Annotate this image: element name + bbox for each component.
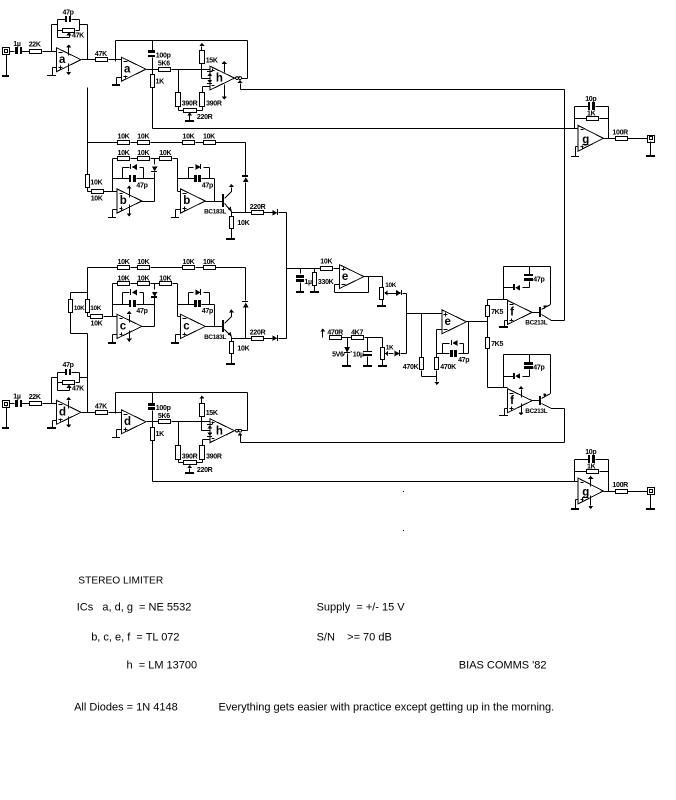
wire 47p top rail (op-amp a1 feedback) xyxy=(58,20,80,38)
diode (op-amp f feedback) xyxy=(504,284,530,291)
svg-text:22K: 22K xyxy=(29,394,41,401)
capacitor 47p (op-amp b2 feedback) xyxy=(178,175,215,202)
wire row-2 (c row) xyxy=(113,283,178,285)
svg-text:b, c, e, f = TL 072: b, c, e, f = TL 072 xyxy=(91,632,179,644)
svg-text:10K: 10K xyxy=(203,134,215,141)
svg-text:10K: 10K xyxy=(203,259,215,266)
op-amp e2 (TL072) xyxy=(442,310,467,334)
svg-text:b: b xyxy=(183,195,190,207)
resistor 390R (left, OTA h network) xyxy=(176,422,198,461)
svg-text:All Diodes = 1N 4148: All Diodes = 1N 4148 xyxy=(74,702,178,714)
diode (OTA h linearizing, upper) xyxy=(207,424,212,429)
junction (a2 inverting node) xyxy=(115,59,118,62)
resistor 100R (g output) xyxy=(612,482,628,493)
capacitor 47p (op-amp b1 feedback) xyxy=(113,175,155,189)
resistor 10K (b row-2 #2) xyxy=(137,150,149,161)
diode (op-amp c2 feedback) xyxy=(189,289,210,305)
op-amp a1 (NE5532) xyxy=(56,48,81,72)
wire c bus upper xyxy=(71,268,88,300)
op-amp g (NE5532 output) xyxy=(578,125,603,151)
svg-text:1µ: 1µ xyxy=(13,41,21,48)
resistor 47K trimmer (op-amp d1 feedback) xyxy=(58,381,85,393)
ground (1K trimmer) xyxy=(378,360,387,368)
diode (OTA h linearizing, upper) xyxy=(207,71,212,76)
ground (op-amp g + input) xyxy=(571,147,579,158)
resistor 220R trimmer (OTA h network) xyxy=(179,460,213,474)
resistor 470R (bias reference) xyxy=(327,329,343,339)
svg-text:4K7: 4K7 xyxy=(351,329,363,336)
resistor 15K (OTA h bias) xyxy=(200,404,218,417)
text STEREO LIMITER xyxy=(78,576,163,587)
wire 22K to op-amp a1 xyxy=(43,51,57,53)
ground (op-amp g + input) xyxy=(571,500,579,511)
transistor BC213L (PNP) xyxy=(525,394,551,415)
resistor 10K (e1 input) xyxy=(320,258,332,270)
svg-text:10K: 10K xyxy=(159,275,171,282)
resistor 10K (b row-1 #2) xyxy=(137,134,149,145)
svg-text:47p: 47p xyxy=(63,9,74,16)
svg-text:47p: 47p xyxy=(202,308,213,315)
resistor 1K (op-amp g feedback) xyxy=(575,111,609,121)
svg-text:47K: 47K xyxy=(72,385,84,392)
svg-text:1µ: 1µ xyxy=(304,279,312,286)
wire e1 output xyxy=(364,277,383,288)
wire b1 input xyxy=(104,191,118,193)
wire d2 output node xyxy=(147,421,159,423)
zener 5V6 (bias reference) xyxy=(332,338,351,366)
diode (c output) xyxy=(264,335,287,341)
svg-text:e: e xyxy=(445,316,451,328)
wire OTA h output to feedback riser xyxy=(242,430,248,432)
svg-text:7K5: 7K5 xyxy=(491,341,503,348)
diode (e2 feedback) xyxy=(443,340,464,354)
connector (output) xyxy=(648,488,655,495)
capacitor 10p (op-amp g feedback) xyxy=(585,449,596,463)
resistor 390R (left, OTA h network) xyxy=(176,70,198,108)
wire 47K to op-amp a2 xyxy=(109,59,122,61)
wire row-1 (c row) xyxy=(88,267,246,269)
wire summing bus to op-amp g xyxy=(153,481,579,483)
svg-text:47K: 47K xyxy=(72,33,84,40)
wire feedback riser (op-amp a1 inverting node) xyxy=(52,25,58,52)
capacitor 100p (d2 feedback) xyxy=(148,393,171,422)
wire 1K to summing wire xyxy=(152,441,154,482)
wire 15K/diode-bias stub (OTA h) xyxy=(202,417,210,431)
svg-text:10K: 10K xyxy=(183,134,195,141)
supply arrow (transistor b collector) xyxy=(229,184,234,187)
ground (c emitter 10K) xyxy=(226,354,235,366)
text Supply line xyxy=(317,602,406,614)
diode (OTA h linearizing, lower) xyxy=(207,80,212,84)
op-amp h (OTA LM13700) xyxy=(210,66,235,90)
op-amp f (TL072) xyxy=(508,389,533,413)
wire feedback top rail (d2/h loop) xyxy=(116,393,248,431)
svg-text:BIAS COMMS '82: BIAS COMMS '82 xyxy=(459,660,547,672)
op-amp c2 (TL072) xyxy=(181,314,206,338)
wire summing bus to op-amp g xyxy=(153,128,579,130)
resistor 10K (c row-2 #2) xyxy=(137,275,149,285)
resistor 47K trimmer (op-amp a1 feedback) xyxy=(58,29,85,40)
OTA h amp-bias arrow xyxy=(237,80,242,90)
capacitor 47p (e2 feedback) xyxy=(437,350,470,364)
svg-text:10K: 10K xyxy=(137,259,149,266)
wire 15K/diode-bias stub (OTA h) xyxy=(202,64,210,79)
wire 5K6 to OTA h xyxy=(172,69,210,71)
resistor 220R (c output) xyxy=(250,330,266,341)
resistor 10K (c row-2 #1) xyxy=(118,275,130,285)
svg-text:22K: 22K xyxy=(29,42,41,49)
resistor 1K (d2 output to summing bus) xyxy=(151,422,165,441)
junction (d2 inverting node) xyxy=(115,411,118,414)
wire e2 output xyxy=(467,322,488,354)
svg-text:10K: 10K xyxy=(320,258,332,265)
svg-text:a: a xyxy=(59,54,66,66)
capacitor 47p (op-amp c1 feedback) xyxy=(113,300,155,315)
svg-text:d: d xyxy=(124,416,131,428)
connector (output) xyxy=(648,136,655,143)
wire op-amp a1 output xyxy=(82,59,96,61)
diode (b output) xyxy=(264,209,287,216)
feedback left rail (op-amp c2) xyxy=(178,284,181,317)
stray dot 1 xyxy=(403,491,404,492)
resistor 10K trimmer (threshold) xyxy=(380,282,397,299)
transistor BC183L (c row) xyxy=(204,313,231,341)
svg-text:10p: 10p xyxy=(585,96,596,103)
resistor 1K (a2 output to summing bus) xyxy=(151,70,165,88)
resistor 5K6 (a2 output) xyxy=(158,60,171,71)
svg-text:Everything gets easier with pr: Everything gets easier with practice exc… xyxy=(219,702,555,714)
svg-text:f: f xyxy=(510,307,514,319)
svg-text:ICs a, d, g = NE 5532: ICs a, d, g = NE 5532 xyxy=(77,602,192,614)
svg-text:10K: 10K xyxy=(237,220,249,227)
transistor BC183L (b row) xyxy=(204,188,231,216)
ground (op-amp b1 + input) xyxy=(108,210,118,219)
resistor 330K (e1 input) xyxy=(313,269,334,292)
resistor 22K (channel A input) xyxy=(29,42,42,54)
resistor 10K (c row-1 #3) xyxy=(183,259,195,270)
svg-text:47p: 47p xyxy=(136,182,147,189)
OTA h output circles xyxy=(236,429,242,432)
resistor 10K (b row-1 #3) xyxy=(183,134,195,145)
text ICs line xyxy=(77,602,192,614)
supply arrows (OTA h) xyxy=(222,61,227,100)
wire 47K to op-amp d2 xyxy=(109,412,122,414)
svg-text:47p: 47p xyxy=(136,308,147,315)
wire e2 feedback left xyxy=(437,330,442,354)
op-amp b2 (TL072) xyxy=(181,189,206,213)
svg-text:10K: 10K xyxy=(74,305,85,312)
svg-text:S/N >= 70 dB: S/N >= 70 dB xyxy=(317,632,392,644)
text BIAS COMMS '82 xyxy=(459,660,547,672)
ground (op-amp a1 + input) xyxy=(47,68,57,77)
op-amp g (NE5532 output) xyxy=(578,478,603,504)
op-amp b1 (TL072) xyxy=(117,189,142,213)
text TL072 line xyxy=(91,632,179,644)
ground (b emitter 10K) xyxy=(226,229,235,241)
resistor 5K6 (d2 output) xyxy=(158,413,171,424)
wire f emitter to feedback rail xyxy=(550,355,552,394)
resistor 10K (b input, horizontal) xyxy=(88,188,104,203)
supply arrows (op-amp d1) xyxy=(66,397,71,428)
svg-text:10K: 10K xyxy=(159,150,171,157)
wire a2 output node xyxy=(147,69,159,71)
resistor 10K (b row-1 #1) xyxy=(118,134,130,145)
resistor 10K (c row-1 #1) xyxy=(118,259,130,270)
resistor 10K (b row-2 #1) xyxy=(118,150,130,161)
text quote line xyxy=(219,702,555,714)
ground (220R wiper) xyxy=(185,112,194,122)
capacitor 47p (op-amp f feedback) xyxy=(524,355,544,377)
svg-text:1K: 1K xyxy=(587,463,596,470)
feedback left rail (op-amp b2) xyxy=(178,159,181,192)
ground (1u filter) xyxy=(296,291,304,293)
connector JA (channel A input) xyxy=(3,48,10,55)
svg-text:220R: 220R xyxy=(250,330,266,337)
ground (220R wiper) xyxy=(185,465,194,474)
svg-text:47p: 47p xyxy=(458,357,469,364)
wire f collector xyxy=(241,409,565,443)
svg-text:BC183L: BC183L xyxy=(204,208,226,215)
svg-text:470K: 470K xyxy=(403,364,419,371)
wiper arrow (1K trimmer) xyxy=(385,351,393,356)
svg-text:330K: 330K xyxy=(318,279,334,286)
svg-text:470K: 470K xyxy=(440,364,456,371)
diode (c row-2 to c1 output) xyxy=(142,284,158,327)
svg-text:10K: 10K xyxy=(91,321,103,328)
wire f output to transistor base xyxy=(533,312,540,314)
svg-text:10K: 10K xyxy=(118,259,130,266)
wire 5K6 to OTA h xyxy=(172,421,210,423)
diode (e1 output detector) xyxy=(396,290,406,296)
junction (15K to h input) xyxy=(201,68,204,71)
svg-text:10K: 10K xyxy=(90,180,102,187)
op-amp d1 (NE5532) xyxy=(56,400,81,424)
svg-text:5K6: 5K6 xyxy=(158,60,170,67)
resistor 15K (OTA h bias) xyxy=(200,51,218,65)
wire 7K5 to f1 xyxy=(488,299,508,301)
svg-text:10K: 10K xyxy=(237,346,249,353)
ground (connector JA) xyxy=(2,55,9,78)
resistor 10K (b row-2 #3) xyxy=(159,150,171,161)
resistor 10K (c input, vertical) xyxy=(86,300,102,313)
svg-text:h: h xyxy=(216,425,223,437)
diode (op-amp b2 feedback) xyxy=(189,164,210,179)
svg-text:e: e xyxy=(342,271,348,283)
wire feedback to output (op-amp d1) xyxy=(80,378,88,413)
wire 7K5 junction (e2 output) xyxy=(487,317,489,338)
svg-text:10K: 10K xyxy=(385,282,397,289)
diode (b row-1 to emitter) xyxy=(242,143,249,213)
resistor 10K (c input from D, vertical) xyxy=(69,300,86,313)
supply arrows (op-amp f) xyxy=(518,386,523,416)
svg-text:15K: 15K xyxy=(206,410,218,417)
supply arrow (15K top) xyxy=(199,395,204,403)
junction (bias line crosses summing wire) xyxy=(564,128,567,131)
wire bus to e1 input xyxy=(287,268,340,270)
wire b2 output to transistor xyxy=(206,201,223,203)
resistor 47K (d1 to d2) xyxy=(95,404,108,415)
supply arrow (transistor c collector) xyxy=(229,309,234,312)
ground (op-amp b2 + input) xyxy=(171,210,181,219)
wire op-amp d1 output xyxy=(82,412,96,414)
capacitor 1u (e1 input filter) xyxy=(296,269,312,292)
wire f emitter to feedback rail xyxy=(550,267,552,305)
wire channel-A bus to b row xyxy=(87,88,89,175)
svg-text:1K: 1K xyxy=(156,79,165,86)
svg-text:47p: 47p xyxy=(533,276,544,283)
feedback rail (op-amp g) xyxy=(575,107,609,139)
feedback left rail (op-amp b1) xyxy=(112,159,114,192)
resistor 4K7 (bias reference) xyxy=(351,329,363,339)
op-amp a2 xyxy=(121,57,146,81)
svg-text:47K: 47K xyxy=(95,51,107,58)
ground (330K) xyxy=(310,291,319,293)
ground (op-amp d2 + input) xyxy=(112,430,122,439)
ground (10K trimmer) xyxy=(377,300,386,308)
capacitor 10p (op-amp g feedback) xyxy=(585,96,596,110)
svg-text:390R: 390R xyxy=(206,101,222,108)
feedback left rail (op-amp c1) xyxy=(112,284,114,317)
svg-text:100p: 100p xyxy=(156,52,171,59)
capacitor 47p (op-amp d1 feedback) xyxy=(63,362,74,375)
op-amp c1 (TL072) xyxy=(117,314,142,338)
diode (c row-1 to emitter) xyxy=(242,268,249,339)
resistor 47K (a1 to a2) xyxy=(95,51,108,62)
op-amp e1 (TL072 buffer) xyxy=(339,265,364,289)
svg-text:BC213L: BC213L xyxy=(525,320,547,327)
svg-text:BC183L: BC183L xyxy=(204,334,226,341)
resistor 470K (e2 + input) xyxy=(403,314,424,372)
ground (op-amp a2 + input) xyxy=(112,78,122,87)
svg-text:c: c xyxy=(120,321,127,333)
wire connector JA to C1A xyxy=(10,51,15,53)
svg-text:10K: 10K xyxy=(118,134,130,141)
op-amp h (OTA LM13700) xyxy=(210,419,235,443)
svg-text:10K: 10K xyxy=(137,134,149,141)
svg-text:10K: 10K xyxy=(137,275,149,282)
diode (OTA h linearizing, lower) xyxy=(207,433,212,437)
diode (op-amp c1 feedback) xyxy=(123,289,144,305)
wire OTA h bias line (to f collector) xyxy=(241,442,565,444)
capacitor 47p (op-amp c2 feedback) xyxy=(178,300,215,327)
wire OTA h output to feedback riser xyxy=(242,78,248,80)
ground (output connector) xyxy=(646,142,655,158)
svg-text:b: b xyxy=(120,195,127,207)
supply arrow (15K top) xyxy=(199,43,204,51)
wire C to 22K (channel A) xyxy=(22,51,30,53)
feedback rail (op-amp g) xyxy=(575,460,609,492)
svg-text:Supply = +/- 15 V: Supply = +/- 15 V xyxy=(317,602,406,614)
resistor 10K (c emitter) xyxy=(230,339,250,354)
wire row-1 (b row) xyxy=(88,142,246,144)
svg-text:5V6: 5V6 xyxy=(332,352,344,359)
svg-text:47p: 47p xyxy=(63,362,74,369)
wire feedback top rail (a2/h loop) xyxy=(116,41,248,79)
capacitor 100p (a2 feedback) xyxy=(148,41,171,70)
wire 22K to op-amp d1 xyxy=(43,403,57,405)
wire detector node vertical xyxy=(406,294,408,354)
wire 47p top rail (op-amp d1 feedback) xyxy=(58,373,80,391)
svg-text:BC213L: BC213L xyxy=(525,408,547,415)
wire e1 feedback loop xyxy=(335,277,369,293)
wire emitter node (c row) xyxy=(232,338,252,340)
diode (op-amp b1 feedback) xyxy=(123,164,144,179)
svg-text:1K: 1K xyxy=(156,431,165,438)
wire 1K to summing wire xyxy=(152,88,154,129)
resistor 1K trimmer (bias) xyxy=(381,345,394,360)
svg-text:a: a xyxy=(124,63,131,75)
svg-text:10p: 10p xyxy=(585,449,596,456)
svg-text:1K: 1K xyxy=(386,345,394,352)
svg-text:STEREO LIMITER: STEREO LIMITER xyxy=(78,576,163,587)
svg-text:10µ: 10µ xyxy=(353,352,364,359)
resistor 7K5 (upper) xyxy=(486,300,504,317)
svg-text:10K: 10K xyxy=(183,259,195,266)
wire 7K5 to f2 xyxy=(488,349,508,388)
svg-text:390R: 390R xyxy=(206,453,222,460)
resistor 10K (c row-1 #4) xyxy=(203,259,216,270)
supply arrows (op-amp b1) xyxy=(127,185,132,216)
wire c1 input xyxy=(104,316,118,318)
resistor 10K (c input, horizontal) xyxy=(88,313,103,328)
capacitor 1u (channel D input) xyxy=(13,394,22,407)
wire OTA h bias line (to f collector) xyxy=(241,89,565,91)
svg-text:100R: 100R xyxy=(612,482,628,489)
transistor BC213L (PNP) xyxy=(525,305,551,327)
svg-text:100p: 100p xyxy=(156,405,171,412)
svg-text:390R: 390R xyxy=(182,453,198,460)
wire OTA-h1 bias vertical xyxy=(564,90,566,321)
wire rectifier output bus (b/c to e1) xyxy=(286,213,288,339)
wire feedback riser (op-amp a2) xyxy=(115,41,117,60)
wire channel-D bus to c row xyxy=(71,313,88,413)
supply arrow (470K bottoms, negative rail) xyxy=(422,371,440,386)
ground (connector JD) xyxy=(2,407,9,430)
resistor 390R (right, OTA h network) xyxy=(200,440,222,461)
svg-text:47K: 47K xyxy=(95,404,107,411)
wire feedback riser (op-amp d2) xyxy=(115,393,117,413)
svg-text:10K: 10K xyxy=(137,150,149,157)
ground (output connector) xyxy=(646,495,655,511)
capacitor 47p (op-amp a1 feedback) xyxy=(63,9,74,22)
resistor 470K (e2 - input) xyxy=(435,354,457,372)
resistor 220R (b output) xyxy=(250,204,266,214)
svg-text:47p: 47p xyxy=(533,365,544,372)
feedback rail (op-amp f) xyxy=(504,267,551,300)
ground (op-amp c1 + input) xyxy=(108,335,118,345)
wire connector JD to C1D xyxy=(10,403,15,405)
wire c2 output to transistor xyxy=(206,326,223,328)
wire feedback to output (op-amp a1) xyxy=(80,25,88,60)
resistor 220R trimmer (OTA h network) xyxy=(179,107,213,122)
wire g output xyxy=(604,138,616,140)
svg-text:10K: 10K xyxy=(91,195,103,202)
feedback rail (op-amp f) xyxy=(504,355,551,388)
svg-text:c: c xyxy=(183,321,190,333)
svg-text:1K: 1K xyxy=(587,111,596,118)
svg-text:f: f xyxy=(510,395,514,407)
supply arrow (bias reference +) xyxy=(320,328,325,337)
wire f collector xyxy=(552,320,565,322)
ground (op-amp f + input) xyxy=(499,409,508,417)
svg-text:100R: 100R xyxy=(612,130,628,137)
svg-text:h: h xyxy=(216,73,223,85)
wire bias node xyxy=(342,337,352,339)
wire g output xyxy=(604,491,616,493)
capacitor 1u (channel A input) xyxy=(13,41,22,54)
resistor 390R (right, OTA h network) xyxy=(200,87,222,108)
svg-text:220R: 220R xyxy=(250,204,266,211)
